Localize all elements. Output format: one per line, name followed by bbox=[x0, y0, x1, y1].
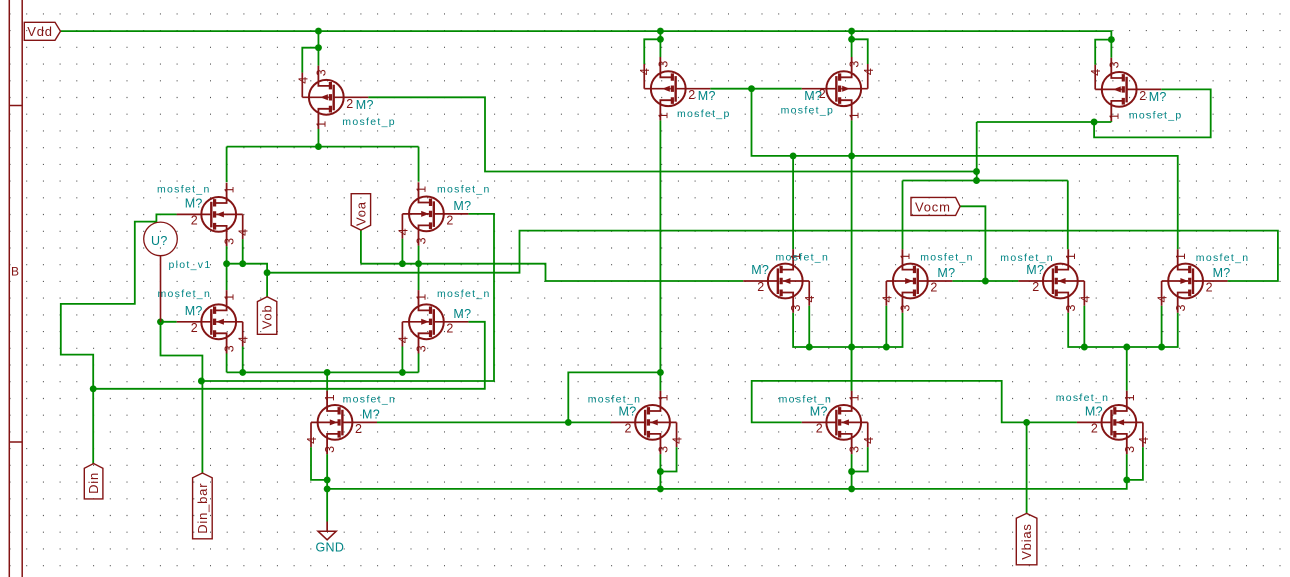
wire node link vert x977 bbox=[976, 122, 978, 181]
svg-text:3: 3 bbox=[314, 69, 328, 76]
wire Voa label drop bbox=[360, 230, 362, 264]
wire T7 gate stub bbox=[161, 321, 177, 323]
junction T9 drain bbox=[790, 152, 797, 159]
wire to T6 drain bbox=[418, 147, 420, 182]
svg-text:2: 2 bbox=[191, 321, 198, 335]
wire T1 bulk tee bbox=[302, 48, 318, 73]
transistor T4 mosfet_p M? bbox=[1089, 58, 1182, 122]
svg-text:mosfet_n: mosfet_n bbox=[157, 184, 211, 196]
junction pmos gates bbox=[748, 85, 755, 92]
junction Vdd-T2 bbox=[657, 28, 664, 35]
svg-text:2: 2 bbox=[446, 213, 453, 227]
svg-text:M?: M? bbox=[356, 98, 374, 112]
svg-text:4: 4 bbox=[237, 336, 251, 343]
svg-text:2: 2 bbox=[688, 88, 695, 102]
wire T5 source drop bbox=[226, 246, 228, 264]
svg-text:mosfet_n: mosfet_n bbox=[1056, 392, 1110, 404]
svg-text:3: 3 bbox=[415, 345, 429, 352]
junction T3 bulk bbox=[848, 36, 855, 43]
junction x977 b bbox=[973, 177, 980, 184]
junction T5 source bbox=[223, 260, 230, 267]
svg-text:M?: M? bbox=[804, 89, 822, 103]
wire gate tie down to drain node bbox=[752, 89, 1178, 250]
wire T15 gate loop bbox=[752, 381, 1077, 423]
wire T3 drain column bbox=[851, 120, 853, 390]
wire T7 source drop bbox=[226, 354, 228, 373]
svg-text:mosfet_n: mosfet_n bbox=[588, 393, 642, 405]
wire pmos4 drain node y122 bbox=[977, 121, 1112, 123]
label Vdd bbox=[24, 22, 60, 40]
svg-text:Voa: Voa bbox=[353, 201, 368, 226]
wire T4 source drop bbox=[1110, 40, 1112, 58]
junction T10 bulk low bbox=[883, 344, 890, 351]
label Vocm bbox=[911, 197, 960, 215]
transistor T15 mosfet_n M? bbox=[779, 391, 876, 454]
wire T13 bulk drop bbox=[311, 447, 327, 480]
transistor T13 mosfet_n M? bbox=[305, 391, 396, 454]
wire T14 bulk drop bbox=[660, 447, 676, 471]
wire GND stub bbox=[326, 489, 328, 522]
wire T6 bulk drop bbox=[401, 239, 403, 264]
wire T1 source drop bbox=[317, 31, 319, 66]
svg-text:4: 4 bbox=[1078, 295, 1092, 302]
svg-text:mosfet_n: mosfet_n bbox=[776, 252, 830, 264]
svg-text:4: 4 bbox=[396, 228, 410, 235]
svg-text:3: 3 bbox=[223, 345, 237, 352]
svg-text:2: 2 bbox=[930, 281, 937, 295]
wire T12 bulk drop bbox=[1161, 306, 1163, 347]
svg-text:3: 3 bbox=[656, 61, 670, 68]
junction T16 source a bbox=[1123, 476, 1130, 483]
wire T2 bulk tee bbox=[644, 39, 660, 64]
svg-text:Vocm: Vocm bbox=[915, 199, 951, 214]
svg-text:4: 4 bbox=[862, 68, 876, 75]
junction T6 bulk low bbox=[399, 260, 406, 267]
svg-text:M?: M? bbox=[1149, 90, 1167, 104]
junction T14 source a bbox=[657, 468, 664, 475]
wire T3 bulk tee bbox=[852, 39, 868, 64]
wire Vocm stub bbox=[960, 206, 985, 281]
svg-text:1: 1 bbox=[1174, 253, 1188, 260]
wire Vob route right bbox=[267, 231, 1278, 281]
svg-text:M?: M? bbox=[619, 404, 637, 418]
junction T13 drain bbox=[324, 369, 331, 376]
svg-text:3: 3 bbox=[789, 304, 803, 311]
junction Din_bar bbox=[198, 378, 205, 385]
svg-text:3: 3 bbox=[323, 446, 337, 453]
svg-text:2: 2 bbox=[446, 321, 453, 335]
svg-text:4: 4 bbox=[237, 229, 251, 236]
wire T15 drain feed bbox=[851, 347, 853, 391]
transistor T3 mosfet_p M? bbox=[781, 57, 876, 120]
svg-text:1: 1 bbox=[223, 186, 237, 193]
junction T15 drain bbox=[848, 344, 855, 351]
junction T3-T15 column bbox=[848, 152, 855, 159]
wire T14 source drop bbox=[659, 454, 661, 489]
label Din_bar bbox=[193, 473, 213, 539]
wire T10 bulk drop bbox=[885, 306, 887, 347]
junction T14 source b bbox=[657, 485, 664, 492]
wire Vbias label drop bbox=[1026, 422, 1028, 513]
svg-text:4: 4 bbox=[803, 295, 817, 302]
wire T2-T3 gate tie bbox=[710, 88, 802, 90]
wire T5 bulk drop bbox=[242, 239, 244, 264]
svg-text:1: 1 bbox=[848, 112, 862, 119]
wire T1 gate route bbox=[368, 97, 976, 171]
wire T6 source drop bbox=[418, 246, 420, 264]
wire gate bus to drain column bbox=[568, 372, 660, 422]
junction y146 node bbox=[315, 143, 322, 150]
wire Vob label drop bbox=[266, 273, 268, 297]
wire T11 bulk drop bbox=[1083, 306, 1085, 347]
svg-text:Vob: Vob bbox=[260, 304, 275, 329]
transistor T11 mosfet_n M? bbox=[1000, 249, 1092, 312]
junction T8 bulk low bbox=[399, 369, 406, 376]
svg-text:2: 2 bbox=[757, 280, 764, 294]
wire bottom gate bus bbox=[377, 421, 611, 423]
svg-text:3: 3 bbox=[415, 237, 429, 244]
transistor T7 mosfet_n M? bbox=[158, 288, 251, 354]
svg-text:mosfet_p: mosfet_p bbox=[781, 105, 835, 117]
svg-text:GND: GND bbox=[316, 541, 345, 555]
svg-text:M?: M? bbox=[1213, 266, 1231, 280]
label Voa bbox=[351, 194, 370, 230]
svg-text:3: 3 bbox=[899, 304, 913, 311]
wire Vocm gate tie bbox=[952, 280, 1018, 282]
junction Vdd-T1 bbox=[315, 28, 322, 35]
wire T7 bulk drop bbox=[242, 347, 244, 373]
junction T7 bulk low bbox=[239, 369, 246, 376]
svg-text:Din: Din bbox=[86, 472, 101, 494]
wire T9 bulk drop bbox=[808, 306, 810, 347]
svg-text:mosfet_n: mosfet_n bbox=[437, 184, 491, 196]
wire Din label drop bbox=[92, 389, 94, 464]
wire T4 bulk tee bbox=[1095, 40, 1111, 65]
wire T11 drain drop bbox=[1067, 181, 1069, 250]
svg-text:1: 1 bbox=[1123, 394, 1137, 401]
svg-text:3: 3 bbox=[656, 446, 670, 453]
junction bottom gates bbox=[565, 419, 572, 426]
junction Vocm gates bbox=[982, 278, 989, 285]
junction T4 drain bbox=[1091, 119, 1098, 126]
wire T15 source drop bbox=[851, 454, 853, 489]
svg-text:M?: M? bbox=[810, 404, 828, 418]
wire left source bus y372 bbox=[227, 371, 419, 373]
svg-text:mosfet_n: mosfet_n bbox=[1196, 252, 1250, 264]
junction T1 bulk bbox=[315, 44, 322, 51]
svg-text:4: 4 bbox=[880, 295, 894, 302]
transistor T12 mosfet_n M? bbox=[1156, 249, 1250, 312]
transistor T6 mosfet_n M? bbox=[396, 182, 490, 245]
wire Din node horiz bbox=[93, 322, 485, 389]
svg-text:2: 2 bbox=[191, 213, 198, 227]
wire T8 source drop bbox=[418, 354, 420, 373]
svg-text:mosfet_n: mosfet_n bbox=[158, 288, 212, 300]
label Vbias bbox=[1016, 513, 1037, 564]
wire T5 gate zigzag from Din bbox=[61, 214, 177, 388]
svg-text:2: 2 bbox=[625, 421, 632, 435]
wire Din_bar route to T6 gate bbox=[201, 214, 494, 381]
wire T15 bulk drop bbox=[852, 447, 868, 471]
junction x977 a bbox=[973, 168, 980, 175]
svg-text:M?: M? bbox=[453, 199, 471, 213]
junction T15 source b bbox=[848, 485, 855, 492]
transistor T14 mosfet_n M? bbox=[588, 391, 685, 454]
svg-text:2: 2 bbox=[1032, 280, 1039, 294]
svg-text:4: 4 bbox=[638, 68, 652, 75]
svg-text:1: 1 bbox=[415, 186, 429, 193]
svg-text:1: 1 bbox=[1107, 113, 1121, 120]
transistor T8 mosfet_n M? bbox=[396, 288, 490, 353]
ground symbol GND bbox=[316, 522, 345, 555]
transistor T16 mosfet_n M? bbox=[1056, 391, 1151, 454]
svg-text:3: 3 bbox=[848, 446, 862, 453]
svg-text:1: 1 bbox=[656, 112, 670, 119]
wire T7 drain drop bbox=[226, 264, 228, 290]
svg-text:1: 1 bbox=[223, 294, 237, 301]
junction T13 source b bbox=[324, 485, 331, 492]
svg-text:mosfet_p: mosfet_p bbox=[1129, 110, 1183, 122]
junction T13 source a bbox=[324, 476, 331, 483]
wire T1 drain down bbox=[317, 129, 319, 147]
wire drain node y146 bbox=[227, 146, 419, 148]
svg-text:M?: M? bbox=[698, 89, 716, 103]
transistor T5 mosfet_n M? bbox=[157, 183, 251, 246]
svg-text:1: 1 bbox=[323, 394, 337, 401]
svg-text:Din_bar: Din_bar bbox=[195, 483, 210, 534]
svg-text:4: 4 bbox=[296, 77, 310, 84]
svg-text:1: 1 bbox=[1064, 253, 1078, 260]
svg-text:mosfet_n: mosfet_n bbox=[343, 393, 397, 405]
wire T8 drain drop bbox=[418, 264, 420, 290]
sheet border frame bbox=[9, 0, 22, 577]
wire T10 drain drop bbox=[902, 181, 904, 250]
transistor T2 mosfet_p M? bbox=[638, 57, 730, 120]
wire T13 drain drop bbox=[326, 372, 328, 390]
wire T16 bulk drop bbox=[1127, 447, 1143, 480]
wire Vdd rail bbox=[61, 31, 1112, 39]
svg-text:4: 4 bbox=[1137, 437, 1151, 444]
junction Din bbox=[90, 385, 97, 392]
label Din bbox=[84, 464, 103, 499]
svg-text:3: 3 bbox=[1123, 446, 1137, 453]
svg-text:M?: M? bbox=[937, 266, 955, 280]
svg-text:3: 3 bbox=[1107, 61, 1121, 68]
svg-text:3: 3 bbox=[223, 238, 237, 245]
wire Vob node left bbox=[227, 264, 268, 273]
junction T4 top bbox=[1108, 36, 1115, 43]
svg-text:4: 4 bbox=[1089, 69, 1103, 76]
wire T4 drain stub bbox=[1110, 120, 1112, 123]
junction T7 gate probe bbox=[157, 318, 164, 325]
svg-text:2: 2 bbox=[1091, 421, 1098, 435]
junction T15 source a bbox=[848, 468, 855, 475]
svg-text:U?: U? bbox=[151, 234, 168, 248]
transistor T10 mosfet_n M? bbox=[880, 249, 973, 312]
label Vob bbox=[257, 297, 276, 335]
wire T9 drain drop bbox=[792, 156, 794, 249]
svg-text:M?: M? bbox=[185, 304, 203, 318]
svg-text:3: 3 bbox=[848, 61, 862, 68]
junction T12 bulk low bbox=[1158, 344, 1165, 351]
wire Din_bar riser bbox=[161, 322, 203, 473]
junction T5 bulk low bbox=[239, 260, 246, 267]
svg-text:2: 2 bbox=[1206, 281, 1213, 295]
transistor T9 mosfet_n M? bbox=[743, 249, 829, 312]
junction Vbias bbox=[1023, 419, 1030, 426]
svg-text:plot_v1: plot_v1 bbox=[169, 259, 212, 271]
svg-text:M?: M? bbox=[751, 263, 769, 277]
svg-text:4: 4 bbox=[862, 437, 876, 444]
wire mid source bus right bbox=[1068, 313, 1178, 347]
svg-text:mosfet_n: mosfet_n bbox=[1000, 252, 1054, 264]
wire T4 diode loop bbox=[1094, 89, 1211, 137]
svg-text:3: 3 bbox=[1174, 304, 1188, 311]
svg-text:4: 4 bbox=[1156, 295, 1170, 302]
junction Vob bbox=[264, 269, 271, 276]
svg-text:mosfet_p: mosfet_p bbox=[677, 108, 731, 120]
svg-text:2: 2 bbox=[355, 422, 362, 436]
junction drain column x660 bbox=[657, 369, 664, 376]
svg-text:2: 2 bbox=[1139, 89, 1146, 103]
wire node y180 to nmos drains bbox=[903, 180, 1068, 182]
svg-text:M?: M? bbox=[362, 407, 380, 421]
wire T8 bulk drop bbox=[401, 347, 403, 373]
svg-text:Vdd: Vdd bbox=[27, 24, 53, 39]
svg-text:3: 3 bbox=[1064, 304, 1078, 311]
svg-text:2: 2 bbox=[816, 421, 823, 435]
probe U? plot_v1 bbox=[144, 222, 212, 322]
wire T16 drain feed bbox=[1126, 347, 1128, 391]
svg-text:mosfet_n: mosfet_n bbox=[779, 393, 833, 405]
junction T16 drain bbox=[1123, 344, 1130, 351]
svg-text:M?: M? bbox=[1085, 404, 1103, 418]
svg-text:1: 1 bbox=[848, 394, 862, 401]
svg-text:mosfet_p: mosfet_p bbox=[342, 116, 396, 128]
wire T13 source drop bbox=[326, 454, 328, 489]
svg-text:M?: M? bbox=[1026, 263, 1044, 277]
junction T9 bulk low bbox=[806, 344, 813, 351]
svg-text:mosfet_n: mosfet_n bbox=[920, 252, 974, 264]
junction T2 bulk bbox=[657, 36, 664, 43]
svg-text:mosfet_n: mosfet_n bbox=[437, 288, 491, 300]
junction Vdd-T3 bbox=[848, 28, 855, 35]
wire T2 source drop bbox=[659, 31, 661, 57]
svg-text:1: 1 bbox=[899, 253, 913, 260]
wire Voa node horiz bbox=[361, 264, 743, 281]
junction T6 source bbox=[415, 260, 422, 267]
svg-text:1: 1 bbox=[415, 294, 429, 301]
wire GND rail bbox=[327, 480, 1127, 489]
wire to T5 drain bbox=[226, 147, 228, 183]
transistor T1 mosfet_p M? bbox=[296, 66, 396, 129]
wire T2 drain column bbox=[659, 120, 661, 390]
wire T16 source drop bbox=[1126, 454, 1128, 480]
svg-text:1: 1 bbox=[656, 394, 670, 401]
svg-text:M?: M? bbox=[185, 196, 203, 210]
svg-text:Vbias: Vbias bbox=[1019, 523, 1034, 560]
wire mid source bus left bbox=[793, 313, 902, 347]
svg-text:2: 2 bbox=[346, 97, 353, 111]
svg-text:4: 4 bbox=[305, 437, 319, 444]
svg-text:B: B bbox=[11, 265, 19, 279]
wire T3 source drop bbox=[851, 31, 853, 57]
svg-text:1: 1 bbox=[314, 121, 328, 128]
junction T11 bulk low bbox=[1081, 344, 1088, 351]
svg-text:4: 4 bbox=[671, 437, 685, 444]
svg-text:4: 4 bbox=[396, 336, 410, 343]
svg-text:M?: M? bbox=[453, 307, 471, 321]
